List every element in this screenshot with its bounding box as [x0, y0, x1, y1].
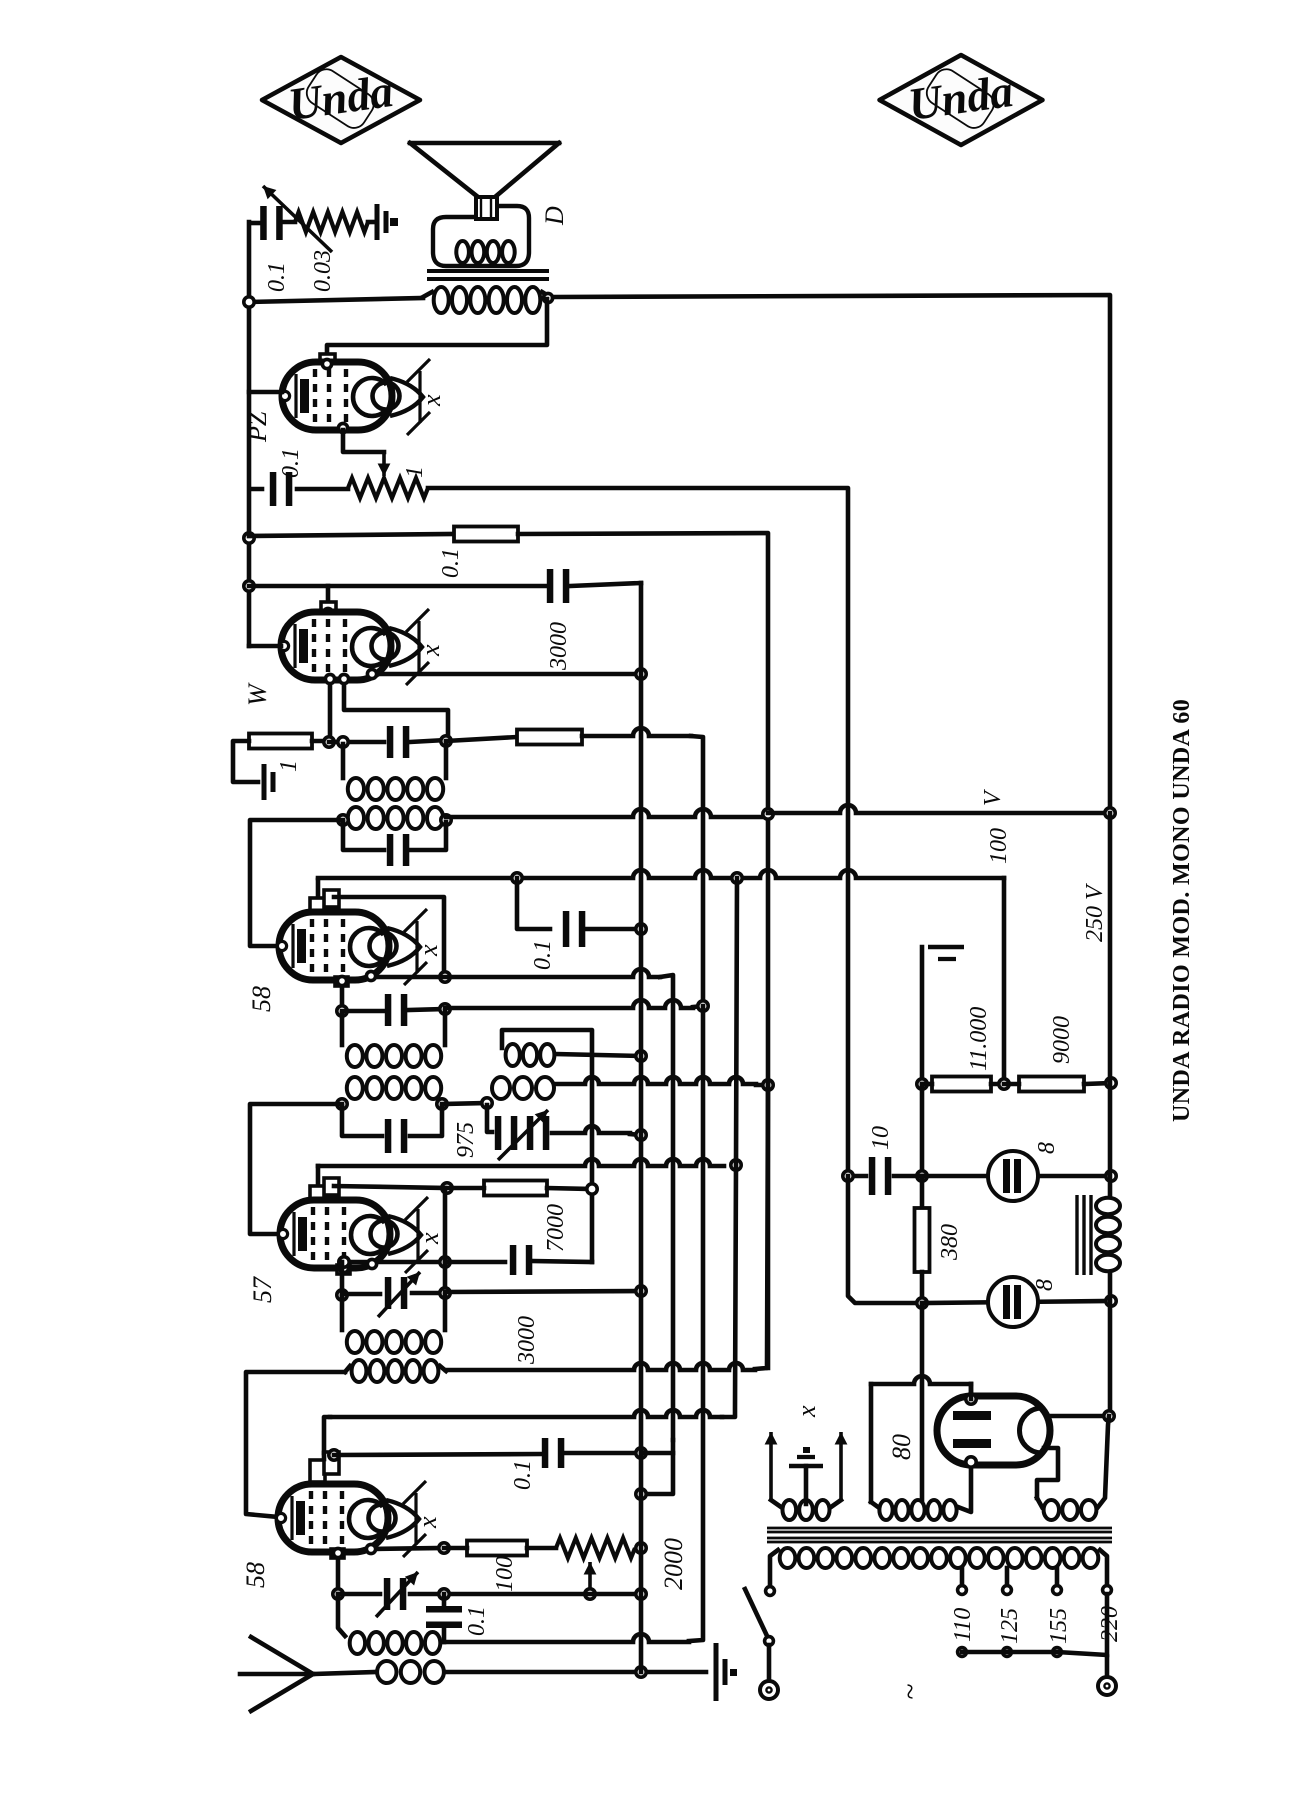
- filter choke winding: [1096, 1198, 1120, 1214]
- ground after 0.03: [368, 220, 376, 225]
- tube 57 (oscillator-mixer): [278, 1197, 428, 1273]
- wire 58-2 bottom tab down to row 1594: [331, 1549, 344, 1558]
- antenna: [240, 1672, 313, 1677]
- IF1 primary winding: [348, 778, 443, 800]
- 57 tank coil frame: [340, 1297, 345, 1330]
- resistor 1 (zigzag): [297, 487, 348, 492]
- svg-text:x: x: [415, 1232, 444, 1245]
- IF2 secondary winding: [347, 1077, 441, 1099]
- wire long winding left to 58-2 grid column: [246, 1372, 345, 1517]
- node IF2 top left: [337, 1006, 347, 1016]
- svg-text:11.000: 11.000: [966, 1007, 992, 1071]
- svg-text:57: 57: [248, 1276, 277, 1303]
- svg-text:0.1: 0.1: [438, 548, 464, 578]
- wire AVC rail 1417 from bus D to 58-2 grid: [722, 878, 737, 1417]
- node PZ top pin: [322, 359, 331, 368]
- wire stub to bus B: [641, 1451, 673, 1456]
- svg-text:x: x: [417, 394, 446, 407]
- node trimmer rail on bus A: [636, 1130, 646, 1140]
- node switch top: [766, 1587, 775, 1596]
- wire screen rail 897: [334, 897, 444, 977]
- oscillator long winding: [352, 1360, 439, 1382]
- wire 80 plate top: [969, 1384, 974, 1399]
- node secondary right end: [543, 293, 552, 302]
- capacitor 3000: [547, 569, 570, 603]
- IF2 primary frame: [340, 1013, 345, 1045]
- wire IF1 secondary right rail to bus E: [446, 809, 768, 817]
- svg-text:110: 110: [950, 1608, 976, 1642]
- svg-text:0.1: 0.1: [464, 1606, 490, 1636]
- antenna secondary winding: [350, 1632, 441, 1654]
- svg-text:~: ~: [894, 1684, 927, 1700]
- node switch bottom: [765, 1637, 774, 1646]
- wire rail to bus F: [428, 488, 848, 1176]
- node res row right on bus G: [1106, 1078, 1116, 1088]
- node row-1549/444: [439, 1543, 449, 1553]
- node res7000 right on osc frame: [587, 1184, 597, 1194]
- capacitor 10: [848, 1174, 866, 1179]
- electrolytic capacitor 8 (second): [922, 1301, 1111, 1303]
- capacitor 0.1 (58-2 plate filter): [334, 1454, 540, 1455]
- node IF2 sec right: [437, 1099, 447, 1109]
- node IF2 rail on bus C: [698, 1001, 708, 1011]
- svg-text:0.1: 0.1: [510, 1460, 536, 1490]
- Unda logo (left): [262, 57, 420, 143]
- plug (left): [760, 1681, 778, 1699]
- resistor W cathode: [249, 734, 312, 749]
- wire 58 bottom rail to bus B corner: [372, 969, 660, 977]
- wire 80 right to bus G: [1048, 1414, 1109, 1419]
- wire 80 right-bottom jog to HV winding: [1037, 1448, 1058, 1498]
- resistor 380 (vertical): [920, 1176, 925, 1208]
- pilot winding: [783, 1500, 830, 1520]
- wire IF1 secondary left rail to 58 grid: [250, 820, 343, 946]
- node IF2 top right: [440, 1004, 450, 1014]
- wire IF1 top row: [329, 740, 384, 745]
- node rail-533 on left column: [244, 533, 254, 543]
- wire PZ input (left pin): [249, 390, 282, 395]
- tube W (detector): [279, 609, 429, 685]
- wire long winding right rail to bus E corner: [446, 1363, 755, 1370]
- wire to ground 1: [233, 741, 258, 782]
- speaker voice-coil housing: [433, 206, 529, 266]
- IF1 primary frame: [341, 744, 346, 778]
- antenna coupling winding: [377, 1661, 444, 1683]
- node rail 1176 on bus G: [1106, 1171, 1116, 1181]
- electrolytic capacitor 8 (first): [988, 1151, 1038, 1201]
- HV winding (right): [1044, 1500, 1097, 1520]
- wire rail 586: [249, 584, 546, 589]
- trimmer capacitors 975: [495, 1116, 518, 1150]
- output transformer secondary winding: [434, 287, 541, 313]
- node rail 813 on bus G: [1105, 808, 1115, 818]
- 57 tank winding: [347, 1331, 441, 1353]
- node rail-1166 on bus D: [731, 1160, 741, 1170]
- node res7000 left: [442, 1183, 452, 1193]
- wire left column: [247, 222, 252, 646]
- svg-text:8: 8: [1032, 1279, 1058, 1291]
- node row-1594 on bus A: [636, 1589, 646, 1599]
- capacitor 0.1 vertical (row 1610): [426, 1606, 462, 1628]
- potentiometer 2000 (zigzag): [556, 1538, 635, 1558]
- capacitor 0.1 (tone): [250, 221, 259, 226]
- node rail 1453 start: [329, 1450, 339, 1460]
- node cap rail on bus A: [636, 1448, 646, 1458]
- bus E upper (x=768): [766, 813, 771, 1368]
- wire rail 533 to bus E: [518, 533, 768, 814]
- node osc rail on bus E: [763, 1080, 773, 1090]
- antenna secondary frame: [338, 1594, 345, 1636]
- wire W input: [249, 644, 281, 649]
- wire primary left end to switch: [770, 1550, 778, 1586]
- svg-text:x: x: [792, 1405, 821, 1418]
- tube 58 (second, RF amplifier): [276, 1481, 426, 1557]
- variable resistor 0.03: [281, 220, 295, 225]
- Unda logo (right): [880, 55, 1043, 145]
- ground (decoupling): [928, 945, 964, 950]
- bus G (right main vertical): [1108, 813, 1113, 1197]
- wire antenna rail to ground: [446, 1670, 706, 1675]
- wire 57 cathode row 1262: [344, 1260, 445, 1265]
- capacitor 0.1 (coupling to PZ): [250, 487, 262, 492]
- filament winding 80: [879, 1500, 956, 1520]
- node screen cap on bus A: [636, 924, 646, 934]
- grid tabs of 57: [310, 1186, 325, 1203]
- node stem on rail 1176: [917, 1171, 927, 1181]
- node W bottom pins: [325, 674, 334, 683]
- node IF1 sec left: [338, 815, 348, 825]
- wire stem 922 down to cap-10 rail: [920, 1084, 925, 1176]
- svg-text:125: 125: [997, 1608, 1023, 1644]
- IF2 secondary frame + capacitor: [342, 1106, 382, 1136]
- tap link row: [958, 1648, 967, 1657]
- svg-text:W: W: [243, 682, 272, 706]
- wire trimmer rail to bus A: [552, 1126, 630, 1133]
- rectifier filament frame (80): [869, 1384, 874, 1502]
- node tickler on bus A: [636, 1051, 646, 1061]
- node rail 1303 on bus G: [1106, 1296, 1116, 1306]
- capacitor 0.1 (58 screen): [563, 911, 586, 947]
- node 58 plate-bottom: [440, 972, 450, 982]
- svg-text:0.1: 0.1: [264, 262, 290, 292]
- resistor 100: [467, 1541, 527, 1556]
- node 80 top pin: [966, 1394, 976, 1404]
- wire B+ rail 813: [768, 805, 1110, 813]
- grid tabs of 58 (first): [310, 898, 325, 915]
- svg-text:D: D: [540, 206, 569, 226]
- svg-text:100: 100: [492, 1556, 518, 1592]
- resistor 11.000: [932, 1077, 991, 1092]
- svg-text:3000: 3000: [546, 622, 572, 671]
- svg-text:x: x: [416, 644, 445, 657]
- capacitor IF1 primary: [387, 726, 410, 758]
- resistor 0.1 (rail 533): [249, 534, 454, 536]
- node rail-674 on bus A: [636, 669, 646, 679]
- node 58 eye bottom: [366, 971, 375, 980]
- wire bus F corner to rail 1303: [848, 1176, 922, 1303]
- oscillator frame: [502, 1030, 592, 1262]
- node antenna rail on bus A: [636, 1667, 646, 1677]
- primary taps 110/125/155/220: [960, 1568, 965, 1585]
- wire row 1642 to bus C corner: [442, 1634, 689, 1642]
- osc padder frame: [487, 1105, 492, 1132]
- svg-text:2000: 2000: [659, 1538, 688, 1590]
- svg-text:9000: 9000: [1049, 1016, 1075, 1064]
- svg-text:80: 80: [887, 1434, 916, 1460]
- node res row centre: [999, 1079, 1009, 1089]
- svg-text:3000: 3000: [514, 1316, 540, 1365]
- tube PZ (output pentode): [280, 359, 430, 435]
- svg-text:58: 58: [241, 1562, 270, 1588]
- wire screen rail 1186 + resistor 7000: [334, 1186, 447, 1188]
- node busE top on rail 813: [763, 809, 773, 819]
- wire W second pin jog: [344, 680, 448, 736]
- row 1594: variable cap: [338, 1592, 380, 1597]
- wire resistor to bus C (corner down): [582, 728, 691, 736]
- IF2 primary winding: [347, 1045, 441, 1067]
- wire tickler to bus A: [556, 1054, 641, 1056]
- node osc coil left: [482, 1098, 492, 1108]
- switch blade: [744, 1587, 768, 1638]
- svg-text:100: 100: [986, 828, 1012, 864]
- svg-text:8: 8: [1034, 1142, 1060, 1154]
- node IF1 sec right: [441, 815, 451, 825]
- svg-text:250 V: 250 V: [1082, 883, 1108, 942]
- wire 58-2 bottom rail 1549: [370, 1548, 444, 1549]
- ground 1 (W cathode): [264, 764, 273, 800]
- node PZ bottom pin: [338, 423, 347, 432]
- node rail-586 on left column: [244, 581, 254, 591]
- filter choke core: [1075, 1195, 1078, 1275]
- output transformer core: [427, 269, 549, 273]
- wire 57 grid from rail 1166: [318, 1159, 724, 1166]
- wire switch to plug: [767, 1645, 772, 1681]
- wire IF2 top rail to bus C: [445, 1000, 693, 1008]
- node IF1 top left: [324, 737, 334, 747]
- wire IF2 sec right to osc coupling coil: [442, 1103, 487, 1104]
- node row-1291 on bus A: [636, 1286, 646, 1296]
- grid tab wire of W: [326, 586, 331, 604]
- wire output primary to PZ anode: [327, 299, 547, 356]
- node 57 eye bottom: [367, 1259, 376, 1268]
- wire 58 cathode tab down: [335, 977, 348, 986]
- node W eye bottom: [367, 669, 376, 678]
- wire W plate rail to bus A: [372, 672, 641, 677]
- svg-text:975: 975: [453, 1122, 479, 1158]
- IF1 secondary frame + capacitor: [343, 822, 384, 850]
- svg-text:1: 1: [276, 760, 302, 772]
- oscillator grid winding: [492, 1077, 554, 1099]
- wire 57 bottom tab down: [337, 1265, 350, 1274]
- node res row left: [917, 1079, 927, 1089]
- wire osc coupling rail to bus E: [556, 1077, 756, 1084]
- svg-text:x: x: [413, 1516, 442, 1529]
- wire row 1291 to bus A: [445, 1291, 641, 1292]
- wire PZ cathode to arrow 1: [343, 430, 384, 452]
- node 880/517: [512, 873, 522, 883]
- row 1291: variable cap: [337, 1290, 347, 1300]
- node cap10 on bus F: [843, 1171, 853, 1181]
- svg-text:155: 155: [1046, 1608, 1072, 1644]
- node 80 bottom pin: [966, 1457, 976, 1467]
- grid cap tab of PZ: [320, 354, 335, 371]
- grid tabs of 58 (second): [310, 1460, 325, 1482]
- node 380 bottom: [917, 1298, 927, 1308]
- node 58-2 eye bottom: [366, 1544, 375, 1553]
- vertical 445 between rows: [443, 1188, 448, 1293]
- svg-text:0.1: 0.1: [530, 940, 556, 970]
- bus G lower: [1108, 1272, 1113, 1416]
- bus A (x=641): [639, 583, 644, 1672]
- pot wiper arrow: [588, 1562, 592, 1592]
- plug (right): [1098, 1677, 1116, 1695]
- resistor 9000: [1019, 1077, 1084, 1092]
- node zigzag on bus A: [636, 1543, 646, 1553]
- wire cap3000 to bus A: [570, 583, 641, 586]
- svg-text:7000: 7000: [543, 1204, 569, 1252]
- primary winding: [780, 1548, 1099, 1568]
- wire IF2 sec left to 57 grid: [250, 1104, 342, 1234]
- pilot lamp leads with arrows (x): [769, 1432, 773, 1500]
- tube 58 (first IF amplifier): [277, 909, 427, 985]
- svg-text:10: 10: [868, 1126, 894, 1150]
- node speaker rail left: [244, 297, 254, 307]
- svg-text:220: 220: [1097, 1606, 1123, 1642]
- wire screen bypass 517 down: [517, 878, 550, 929]
- node IF1 cap left: [338, 737, 348, 747]
- centre-tap wire from 380 stem: [920, 1303, 925, 1500]
- loudspeaker horn D: [410, 141, 559, 146]
- node bus G bottom: [1104, 1411, 1114, 1421]
- ground (antenna/chassis): [716, 1643, 737, 1701]
- node bus D start: [732, 873, 742, 883]
- node IF1 top right: [441, 736, 451, 746]
- node IF2 sec left: [337, 1099, 347, 1109]
- svg-text:58: 58: [247, 986, 276, 1012]
- capacitor 7000 bypass: [445, 1260, 505, 1265]
- wire rail 1176 to bus G: [922, 1174, 1111, 1179]
- svg-text:0.03: 0.03: [310, 250, 336, 292]
- svg-text:V: V: [980, 789, 1006, 806]
- tube 80 (rectifier): [937, 1396, 1050, 1465]
- node bus B jog on bus A: [636, 1489, 646, 1499]
- wire grid rail 880: [316, 880, 321, 897]
- wire speaker rail to right bus: [249, 298, 423, 302]
- voice coil winding: [456, 241, 514, 263]
- capacitor IF2 primary: [342, 1009, 384, 1014]
- svg-text:UNDA RADIO MOD. MONO UNDA 60: UNDA RADIO MOD. MONO UNDA 60: [1169, 699, 1195, 1122]
- wire W cathode left pin down: [328, 680, 333, 741]
- resistor 0.1 after IF1: [446, 737, 517, 741]
- pilot ground: [789, 1447, 823, 1466]
- power transformer core: [767, 1527, 1112, 1530]
- oscillator tickler winding: [506, 1044, 555, 1066]
- svg-text:x: x: [414, 944, 443, 957]
- IF1 secondary winding: [348, 807, 443, 829]
- svg-text:PZ: PZ: [243, 411, 272, 443]
- wire bus B bottom jog to bus A: [641, 1440, 673, 1494]
- svg-text:380: 380: [937, 1224, 963, 1261]
